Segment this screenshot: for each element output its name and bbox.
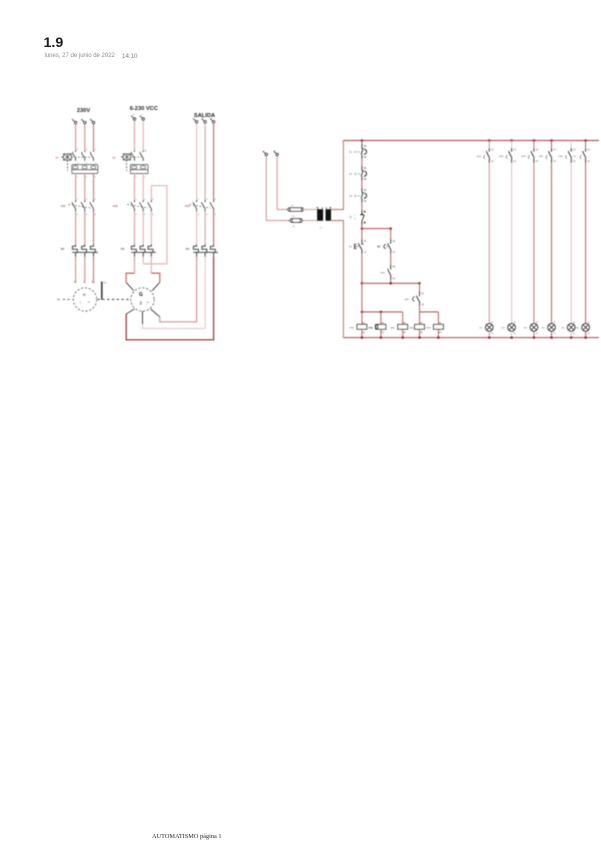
node bus seal-in	[361, 282, 363, 284]
svg-text:PE: PE	[104, 283, 107, 285]
svg-text:A2: A2	[403, 331, 406, 334]
svg-text:L: L	[82, 118, 84, 120]
wire S1 to node bus	[361, 253, 363, 283]
svg-text:14: 14	[573, 161, 576, 163]
wire transformer secondary to top rail	[331, 141, 344, 210]
wire generator to SALIDA phase 1	[160, 257, 197, 322]
svg-text:S2: S2	[377, 246, 381, 249]
contactor contacts KM2 power	[134, 200, 136, 202]
svg-text:14: 14	[491, 161, 494, 163]
coil KA1	[380, 312, 382, 324]
svg-text:X2: X2	[573, 333, 576, 335]
svg-text:X1: X1	[587, 322, 590, 324]
rail contact KM2 and lamp H2	[511, 139, 513, 141]
coil feed bus left	[362, 311, 403, 313]
svg-text:-KM2: -KM2	[112, 206, 118, 208]
svg-text:L: L	[263, 150, 265, 152]
overload relay F4	[193, 244, 198, 252]
svg-text:14: 14	[587, 161, 590, 163]
control supply terminal L	[265, 153, 268, 156]
svg-text:1: 1	[95, 149, 97, 151]
svg-text:5: 5	[95, 199, 97, 201]
svg-text:4: 4	[206, 214, 208, 216]
Q1 trip linkage dashed	[66, 160, 68, 171]
svg-text:U1: U1	[73, 282, 75, 284]
rail contact KA2 and lamp H5	[570, 141, 572, 149]
circuit breaker Q2	[134, 150, 136, 152]
svg-text:1: 1	[354, 215, 356, 217]
start pushbutton S2 NO	[390, 229, 392, 240]
switch F1 disconnector	[361, 210, 363, 214]
svg-text:24: 24	[393, 252, 396, 254]
svg-text:KA1: KA1	[539, 155, 544, 158]
svg-text:48: 48	[421, 305, 424, 307]
thermal NC contact F3 chain	[361, 166, 363, 171]
svg-text:95: 95	[364, 168, 367, 170]
terminals X2 VCC + -	[133, 118, 136, 121]
generator output lead mid	[142, 311, 144, 324]
overload relay F3	[131, 244, 136, 252]
top supply bus	[343, 140, 599, 142]
svg-text:6: 6	[95, 214, 97, 216]
svg-text:4: 4	[86, 214, 88, 216]
svg-text:11: 11	[364, 241, 367, 243]
svg-text:H2: H2	[502, 327, 506, 329]
svg-text:Q2: Q2	[112, 156, 116, 159]
wire excitation hat right	[150, 257, 152, 273]
wire SALIDA columns upper	[196, 123, 198, 200]
svg-text:2: 2	[144, 177, 145, 179]
svg-text:5: 5	[152, 199, 154, 201]
svg-text:S1: S1	[349, 246, 353, 249]
svg-text:12: 12	[364, 252, 367, 254]
svg-text:6-230 VCC: 6-230 VCC	[130, 106, 158, 112]
svg-text:2: 2	[95, 177, 96, 179]
generator G1 three phase	[131, 288, 154, 311]
coil KM1	[361, 312, 363, 324]
svg-text:6: 6	[215, 214, 217, 216]
generator output lead left	[126, 309, 134, 314]
svg-text:97: 97	[354, 174, 357, 176]
coil KA1 aux mark	[375, 325, 377, 329]
svg-text:2: 2	[198, 214, 200, 216]
svg-text:54: 54	[393, 278, 396, 280]
svg-text:A2: A2	[439, 331, 442, 334]
svg-text:13: 13	[513, 150, 516, 152]
svg-text:3: 3	[79, 300, 82, 305]
svg-text:A2: A2	[420, 331, 423, 334]
svg-text:5: 5	[215, 199, 217, 201]
svg-text:F6: F6	[292, 226, 295, 228]
svg-text:97: 97	[354, 152, 357, 154]
svg-text:96: 96	[364, 157, 367, 159]
wire 230V to motor	[75, 257, 77, 283]
svg-text:95: 95	[364, 146, 367, 148]
svg-text:14: 14	[536, 161, 539, 163]
svg-text:F6: F6	[292, 216, 295, 218]
svg-text:F2: F2	[349, 151, 352, 154]
svg-text:3: 3	[86, 199, 88, 201]
svg-text:F4: F4	[186, 247, 190, 251]
svg-text:V1: V1	[83, 282, 85, 284]
svg-text:23: 23	[393, 241, 396, 243]
svg-text:KA2: KA2	[390, 327, 395, 330]
svg-text:X1: X1	[513, 322, 516, 324]
svg-text:3: 3	[139, 301, 142, 306]
branch bus to start circuit	[361, 228, 363, 230]
wire node to coil bus	[361, 283, 363, 312]
svg-text:X1: X1	[491, 322, 494, 324]
svg-text:97: 97	[354, 196, 357, 198]
thermal NC contact F4 chain	[361, 188, 363, 193]
svg-text:2: 2	[354, 219, 356, 221]
svg-text:F2: F2	[61, 247, 65, 251]
svg-text:47: 47	[421, 293, 424, 295]
wire between F4 and switch F1	[361, 203, 363, 210]
svg-text:1: 1	[77, 149, 79, 151]
wire VCC columns upper	[134, 121, 136, 151]
svg-text:2: 2	[86, 162, 88, 164]
svg-text:2: 2	[77, 214, 79, 216]
svg-text:−: −	[141, 113, 143, 117]
svg-text:H1: H1	[480, 327, 484, 329]
svg-text:53: 53	[393, 267, 396, 269]
svg-text:~: ~	[87, 301, 90, 306]
svg-text:H4: H4	[542, 327, 546, 329]
svg-text:14: 14	[553, 161, 556, 163]
svg-text:X2: X2	[513, 333, 516, 335]
svg-text:13: 13	[536, 150, 539, 152]
terminals X3 SALIDA	[195, 121, 198, 124]
svg-text:95: 95	[364, 190, 367, 192]
generator excitation leads	[126, 282, 134, 290]
overload relay F2	[72, 244, 77, 252]
svg-text:+: +	[133, 113, 135, 117]
wire fuses to transformer primary	[303, 209, 317, 211]
svg-text:H3: H3	[524, 327, 528, 329]
trip unit box Q1	[72, 165, 98, 174]
svg-text:G: G	[139, 292, 143, 298]
wire top bus junction to F chain	[361, 139, 363, 141]
svg-text:KA2: KA2	[405, 298, 410, 301]
wire VCC third pole from loop	[150, 186, 152, 201]
terminals X1 230V L1 L2 L3	[74, 121, 77, 124]
svg-text:13: 13	[491, 150, 494, 152]
wire S2 to KM1 aux	[390, 253, 392, 265]
svg-text:F3: F3	[349, 173, 352, 176]
svg-text:230V: 230V	[77, 108, 90, 114]
wire 230V columns upper	[75, 124, 77, 150]
rail contact S3 and lamp H6	[585, 139, 587, 141]
svg-text:4: 4	[144, 214, 146, 216]
svg-text:2: 2	[136, 214, 138, 216]
coil feed bus right	[420, 311, 439, 313]
svg-text:3: 3	[206, 199, 208, 201]
wire terminal L to fuse F6	[266, 156, 289, 221]
svg-text:KM1: KM1	[350, 328, 355, 330]
coil KM5	[415, 324, 425, 329]
svg-text:KM3: KM3	[521, 156, 526, 158]
svg-text:N: N	[274, 150, 276, 152]
svg-text:6: 6	[152, 214, 154, 216]
svg-text:W1: W1	[91, 282, 94, 284]
wire transformer secondary to bottom rail	[331, 221, 344, 338]
svg-text:13: 13	[573, 150, 576, 152]
svg-text:X1: X1	[536, 322, 539, 324]
auxiliary contact KM1 NO	[390, 265, 392, 270]
svg-text:13: 13	[587, 150, 590, 152]
fuse F6	[288, 220, 303, 222]
rail contact KM3 and lamp H3	[533, 139, 535, 141]
auxiliary contact KA2 NO	[419, 283, 421, 291]
svg-text:T1: T1	[319, 228, 322, 230]
coil K	[433, 324, 443, 329]
contactor contacts KM3 power	[196, 200, 198, 202]
svg-text:14: 14	[513, 161, 516, 163]
svg-text:H5: H5	[561, 327, 565, 329]
svg-text:KM1: KM1	[381, 272, 386, 274]
circuit breaker Q1	[75, 150, 77, 152]
svg-text:1: 1	[145, 148, 147, 152]
wire 230V columns mid	[75, 174, 77, 201]
svg-text:96: 96	[364, 201, 367, 203]
svg-text:M1: M1	[57, 299, 61, 302]
wire between F3 and F4	[361, 181, 363, 188]
wire KA2 contact down to coil KM2	[419, 305, 421, 324]
svg-text:2: 2	[95, 162, 97, 164]
motor M1 three phase	[73, 288, 96, 311]
svg-text:A2: A2	[363, 331, 366, 334]
transformer T1	[317, 210, 323, 221]
svg-text:KM5: KM5	[426, 328, 431, 330]
svg-text:L: L	[91, 118, 93, 120]
wire 230V columns lower	[75, 211, 77, 244]
stop pushbutton S1 NC	[361, 229, 363, 240]
svg-text:X2: X2	[553, 333, 556, 335]
svg-text:F1: F1	[349, 216, 352, 219]
fuse F5	[287, 209, 304, 211]
svg-text:L: L	[73, 118, 75, 120]
generator output lead right	[151, 309, 160, 317]
svg-text:M: M	[83, 293, 86, 297]
contactor contacts KM1 power	[75, 200, 77, 202]
wire generator to SALIDA phase 3	[126, 257, 213, 340]
wire generator to SALIDA phase 2	[143, 257, 206, 329]
wire terminal N to fuse F5	[277, 156, 287, 210]
trip unit box Q2	[130, 165, 148, 174]
svg-text:Q1: Q1	[55, 156, 59, 159]
svg-text:-KM1: -KM1	[60, 206, 66, 208]
Q2 trip linkage dashed	[126, 160, 128, 171]
wire VCC columns mid	[134, 174, 136, 201]
svg-text:2: 2	[136, 177, 137, 179]
wire excitation hat left	[134, 257, 136, 273]
svg-text:96: 96	[364, 179, 367, 181]
rail contact KA1 and lamp H4	[550, 139, 552, 141]
coil KA2	[402, 312, 404, 324]
svg-text:13: 13	[553, 150, 556, 152]
bottom return bus	[343, 337, 599, 339]
wire F1 to branch node	[361, 226, 363, 229]
svg-text:X1: X1	[553, 322, 556, 324]
svg-text:X2: X2	[536, 333, 539, 335]
svg-text:-KM3: -KM3	[184, 206, 190, 208]
svg-text:X2: X2	[587, 333, 590, 335]
wire KM1 aux to node bus	[390, 280, 392, 284]
svg-text:~: ~	[146, 301, 149, 306]
svg-text:2: 2	[86, 177, 87, 179]
svg-text:X1: X1	[573, 322, 576, 324]
svg-text:H6: H6	[576, 327, 580, 329]
svg-text:1: 1	[77, 199, 79, 201]
svg-text:KM1: KM1	[477, 156, 482, 158]
wire VCC columns lower	[134, 211, 136, 244]
wire between F2 and F3	[361, 159, 363, 166]
svg-text:1: 1	[136, 199, 138, 201]
wire VCC loop via mid pole	[142, 257, 144, 264]
thermal NC contact F2 chain	[361, 144, 363, 149]
svg-text:1: 1	[86, 149, 88, 151]
svg-text:2: 2	[77, 162, 79, 164]
wire SALIDA columns lower	[196, 211, 198, 244]
svg-text:3: 3	[144, 199, 146, 201]
svg-text:1: 1	[198, 199, 200, 201]
svg-text:2: 2	[77, 177, 78, 179]
svg-text:KA4: KA4	[409, 327, 414, 330]
svg-text:X2: X2	[491, 333, 494, 335]
svg-text:KM2: KM2	[499, 156, 504, 158]
rail contact KM1 and lamp H1	[488, 139, 490, 141]
mechanical coupling dashed shaft	[97, 298, 130, 300]
svg-text:A2: A2	[382, 331, 385, 334]
PE conductor bar	[101, 281, 103, 299]
svg-text:F3: F3	[121, 247, 125, 251]
svg-text:KA2: KA2	[559, 155, 564, 158]
control supply terminal N	[276, 153, 279, 156]
svg-text:S3: S3	[573, 156, 576, 158]
svg-text:F4: F4	[349, 195, 352, 198]
